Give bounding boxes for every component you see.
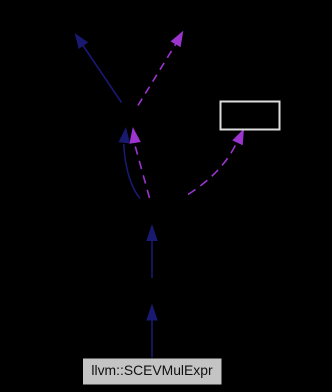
svg-text:llvm::SCEVMulExpr: llvm::SCEVMulExpr	[91, 362, 213, 378]
node: empty class box (light border, top right)	[221, 102, 280, 130]
wire: inheritance edge SCEV to FoldingSetNode (solid blue, up-left)	[75, 33, 122, 103]
wire: inheritance edge SCEVMulExpr to SCEVCommutativeExpr (solid blue, vertical)	[146, 304, 158, 359]
node llvm::SCEVMulExpr (current class, gray fill)	[83, 358, 223, 385]
wire: inheritance edge SCEVNAryExpr to SCEV (solid blue curve)	[119, 127, 141, 199]
wire: usage edge SCEVNAryExpr to SCEV (dashed purple curve)	[129, 127, 149, 198]
wire: inheritance edge SCEVCommutativeExpr to SCEVNAryExpr (solid blue, vertical)	[146, 224, 158, 278]
wire: usage edge SCEV to SCEVTypes (dashed purple, up-right)	[138, 31, 183, 106]
wire: usage edge SCEVNAryExpr to box node (dashed purple curve, up-right)	[188, 129, 244, 195]
